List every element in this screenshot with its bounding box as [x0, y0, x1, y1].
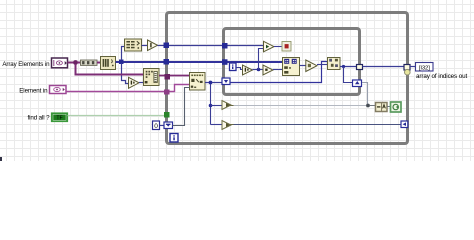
wire: purple branch down then right to node D	[76, 64, 144, 75]
iteration terminal i (inner loop)	[230, 63, 237, 71]
wire: branch down to inner SR right	[344, 67, 353, 83]
wire: row1 across to inner loop	[169, 45, 222, 47]
wire: T7 output across to outer SR right	[234, 124, 402, 126]
wire: row1 to T3	[228, 45, 264, 47]
shift register right (outer loop)	[401, 121, 408, 128]
wire: to inner SR left	[212, 82, 222, 84]
wire: node B to decrement	[142, 45, 148, 47]
wire: vertical index distribution	[210, 84, 212, 125]
wire: SR right external down to junction	[362, 83, 368, 106]
wire: TC output to node D	[139, 82, 143, 84]
wire: SR value across to N3	[230, 62, 328, 83]
increment triangle T1	[243, 65, 253, 75]
svg-text:TF: TF	[56, 115, 62, 121]
svg-text:array of indices out: array of indices out	[416, 73, 468, 80]
constant 0	[153, 121, 160, 130]
indicator: [I32]	[416, 63, 434, 72]
wire: branch to T6	[211, 105, 223, 107]
wire: box1 to box2	[387, 106, 391, 108]
svg-text:find all ?: find all ?	[27, 115, 50, 122]
wire: branch to T7	[211, 124, 223, 126]
wire: SR left up to node E lower input	[173, 88, 190, 126]
chain strip element	[81, 60, 98, 65]
wire: T4 to N3	[317, 64, 327, 66]
tunnel: inner loop right output	[357, 65, 363, 70]
tunnel: outer loop row2	[164, 59, 170, 65]
tunnel: outer loop row1	[164, 43, 170, 49]
box2 (continue if true)	[391, 102, 402, 112]
double triangle T6	[222, 101, 234, 110]
triangle T2	[263, 65, 273, 75]
wire: array out of terminal	[68, 62, 75, 64]
svg-text:[I32]: [I32]	[419, 65, 430, 71]
junction square on blue wire	[119, 60, 124, 65]
wire: T1 to T2	[253, 69, 264, 71]
wire: decrement to outer tunnel	[158, 45, 165, 47]
junction dot at node E output	[209, 81, 213, 85]
wire: row2 across to inner loop	[169, 61, 222, 63]
control terminal: Element in	[50, 86, 67, 94]
inner while loop border	[224, 29, 360, 95]
iteration terminal i (outer loop)	[170, 134, 178, 143]
tunnel: outer loop green	[164, 112, 170, 118]
node B (array size icon)	[125, 39, 142, 51]
wire: boolean to green tunnel	[68, 115, 165, 117]
junction dot y105	[366, 104, 370, 108]
wire: inner tunnel to outer tunnel	[363, 66, 405, 68]
wire: branch up to node B	[122, 47, 125, 61]
node A (array icon)	[101, 57, 116, 70]
wire: N2 to T4	[300, 65, 306, 67]
wire: T2 to N2	[273, 69, 283, 71]
wire: to indicator	[410, 66, 416, 68]
node N3	[328, 58, 341, 70]
wire: T3 to stop node	[274, 46, 282, 48]
node E (search 1D array)	[190, 73, 206, 91]
junction dot middle row	[257, 68, 261, 72]
node N2 (array subset)	[283, 58, 300, 76]
triangle TC	[129, 77, 140, 88]
wire: node A output array of i32	[116, 61, 165, 63]
wire: node D output to node E through purple tunnel	[159, 75, 189, 77]
shift register left (inner loop)	[222, 78, 230, 85]
tunnel: outer loop purple	[165, 74, 171, 80]
wire: node E output	[205, 82, 209, 84]
svg-text:Element in: Element in	[19, 88, 48, 95]
outer while loop border	[167, 13, 408, 144]
wire: element in to outer tunnel	[66, 91, 164, 93]
svg-text:0: 0	[154, 123, 158, 130]
tunnel: inner loop row2	[222, 59, 228, 65]
wire: branch up to T3 lower input	[259, 49, 264, 70]
shift register right (inner loop)	[353, 80, 362, 87]
window corner mark bottom-left	[0, 157, 2, 161]
control terminal: Array Elements in	[52, 58, 68, 68]
wire: strip to node A	[97, 62, 100, 64]
svg-text:Array Elements in: Array Elements in	[2, 61, 50, 68]
stop node (red square)	[282, 42, 291, 52]
double triangle T7	[222, 121, 234, 130]
tunnel: outer loop right output	[404, 65, 410, 71]
wire: junction to chain strip	[78, 62, 81, 64]
wire: i to T1	[236, 68, 243, 70]
decrement triangle T5	[148, 40, 158, 51]
junction dot on array wire	[73, 60, 78, 65]
indexing circle below tunnel	[405, 69, 411, 75]
shift register left (outer loop)	[164, 122, 173, 129]
wire: junction to box1	[370, 105, 376, 107]
triangle T4	[306, 60, 317, 72]
junction dot for T6 branch	[209, 104, 213, 108]
tunnel: outer loop magenta	[164, 90, 170, 95]
wire: 0 to SR left	[160, 125, 164, 127]
junction dot on N3 output	[342, 65, 345, 68]
control terminal: find all?	[52, 113, 68, 122]
wire: T6 output faint	[234, 105, 367, 107]
wire: branch down to triangle TC	[122, 64, 129, 84]
triangle T3	[264, 41, 275, 52]
node D (sort array icon)	[144, 69, 160, 86]
wire: magenta jog to node E	[170, 85, 190, 92]
wire: N3 output to inner tunnel	[340, 66, 357, 68]
wire: thick array wire to N2	[228, 61, 283, 63]
box1 (two-cell comparison)	[376, 103, 388, 112]
tunnel: inner loop row1	[222, 43, 228, 49]
